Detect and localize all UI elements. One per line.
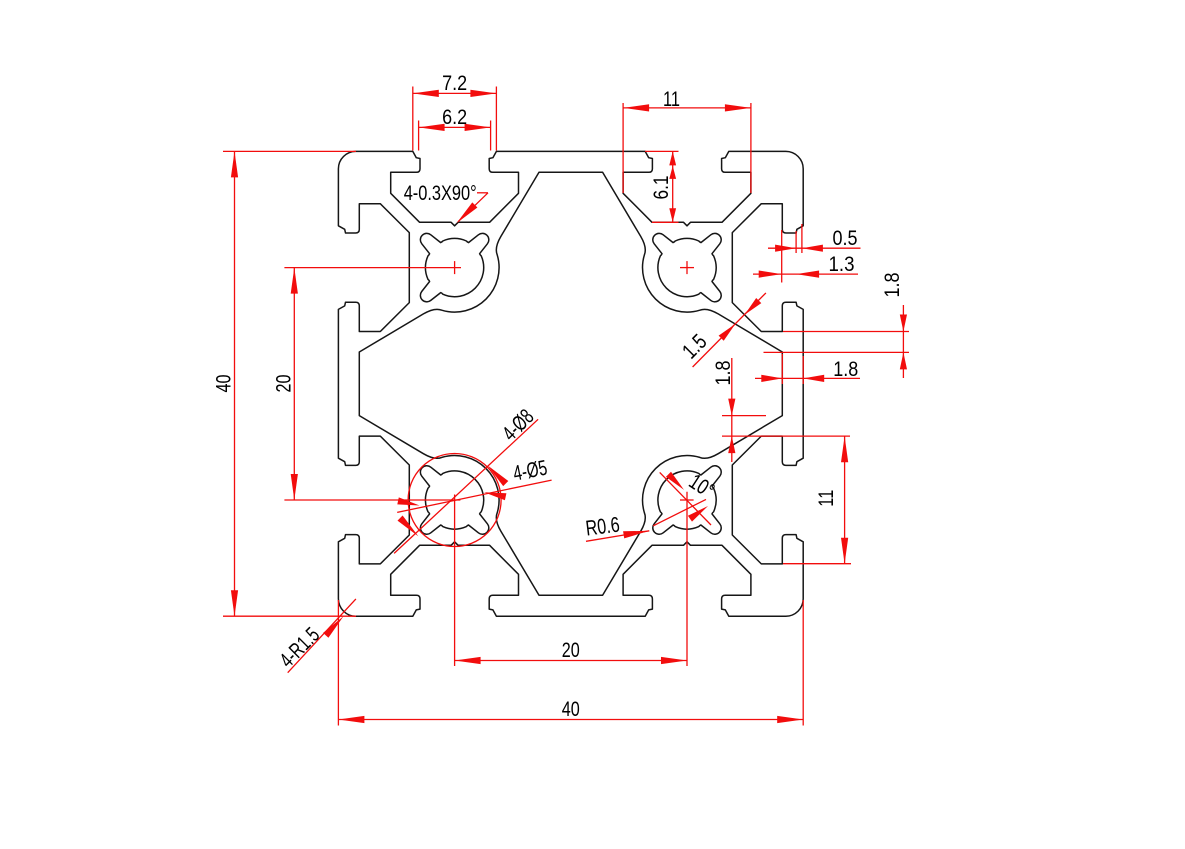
svg-text:R0.6: R0.6 bbox=[584, 513, 621, 541]
screw boss bore top-left bbox=[420, 233, 488, 301]
svg-text:4-0.3X90°: 4-0.3X90° bbox=[404, 181, 477, 205]
central core cavity bbox=[359, 172, 782, 595]
screw boss bore bottom-right bbox=[653, 466, 721, 534]
centerline top-left boss bbox=[284, 261, 461, 274]
svg-text:11: 11 bbox=[663, 87, 680, 111]
svg-text:20: 20 bbox=[272, 374, 296, 392]
svg-text:7.2: 7.2 bbox=[442, 71, 467, 95]
dimension 11 (T-slot cavity width, top) bbox=[623, 87, 751, 193]
callout R0.6 (lobe tip radius) with leader bbox=[584, 513, 649, 542]
angular dimension 10deg (lobe slit angle) bbox=[653, 469, 719, 526]
svg-text:6.1: 6.1 bbox=[649, 176, 673, 200]
dimension 1.5 (diagonal web thickness) bbox=[678, 293, 766, 367]
dimension 40 (overall width, bottom) bbox=[338, 600, 803, 726]
dimension 20 (boss center spacing, left) bbox=[272, 268, 298, 500]
svg-text:1.8: 1.8 bbox=[880, 272, 904, 297]
svg-text:1.8: 1.8 bbox=[711, 360, 735, 385]
svg-text:1.3: 1.3 bbox=[829, 252, 855, 276]
svg-text:40: 40 bbox=[212, 374, 236, 392]
profile outer boundary with 8 T-slots bbox=[338, 151, 803, 616]
dimension 6.2 (slot throat width) bbox=[419, 105, 491, 151]
dimension 7.2 (slot opening over chamfers) bbox=[413, 71, 497, 151]
centerline bottom-right boss bbox=[680, 492, 694, 666]
dimension 1.8 (wall between cavity and core, upper right) bbox=[764, 272, 910, 378]
screw boss bore bottom-left bbox=[420, 466, 488, 534]
callout 4-D5 (bore diameter) with leader bbox=[397, 456, 551, 513]
callout 4-0.3X90deg (thread relief notch) with leader bbox=[404, 181, 488, 223]
centerlines bottom-left boss bbox=[284, 495, 460, 667]
D8 reference circle on bottom-left boss bbox=[408, 454, 501, 547]
svg-text:1.8: 1.8 bbox=[833, 357, 858, 381]
dimension 1.8 (side wall thickness) bbox=[755, 354, 860, 384]
svg-text:40: 40 bbox=[562, 697, 580, 721]
svg-text:6.2: 6.2 bbox=[442, 105, 467, 129]
callout 4-R1.5 (outer corner radius) with leader bbox=[275, 599, 356, 673]
svg-text:11: 11 bbox=[814, 490, 838, 507]
dimension 6.1 (slot cavity depth) bbox=[645, 151, 679, 222]
callout 4-D8 (bore lobe diameter) with diagonal leader bbox=[394, 405, 538, 554]
svg-text:0.5: 0.5 bbox=[833, 226, 858, 250]
screw boss bore top-right bbox=[653, 233, 721, 301]
dimension 11 (T-slot cavity width, right) bbox=[783, 436, 851, 563]
center mark top-right boss bbox=[680, 261, 694, 274]
dimension 1.8 (wall between cavity and core, lower) bbox=[711, 358, 850, 462]
svg-text:20: 20 bbox=[562, 638, 580, 662]
dimension 1.3 (lip face width) bbox=[753, 230, 858, 283]
dimension 20 (boss center spacing, bottom) bbox=[455, 638, 687, 664]
dimension 40 (overall height, left) bbox=[212, 151, 357, 616]
dimension 0.5 (lip step depth) bbox=[768, 224, 861, 253]
